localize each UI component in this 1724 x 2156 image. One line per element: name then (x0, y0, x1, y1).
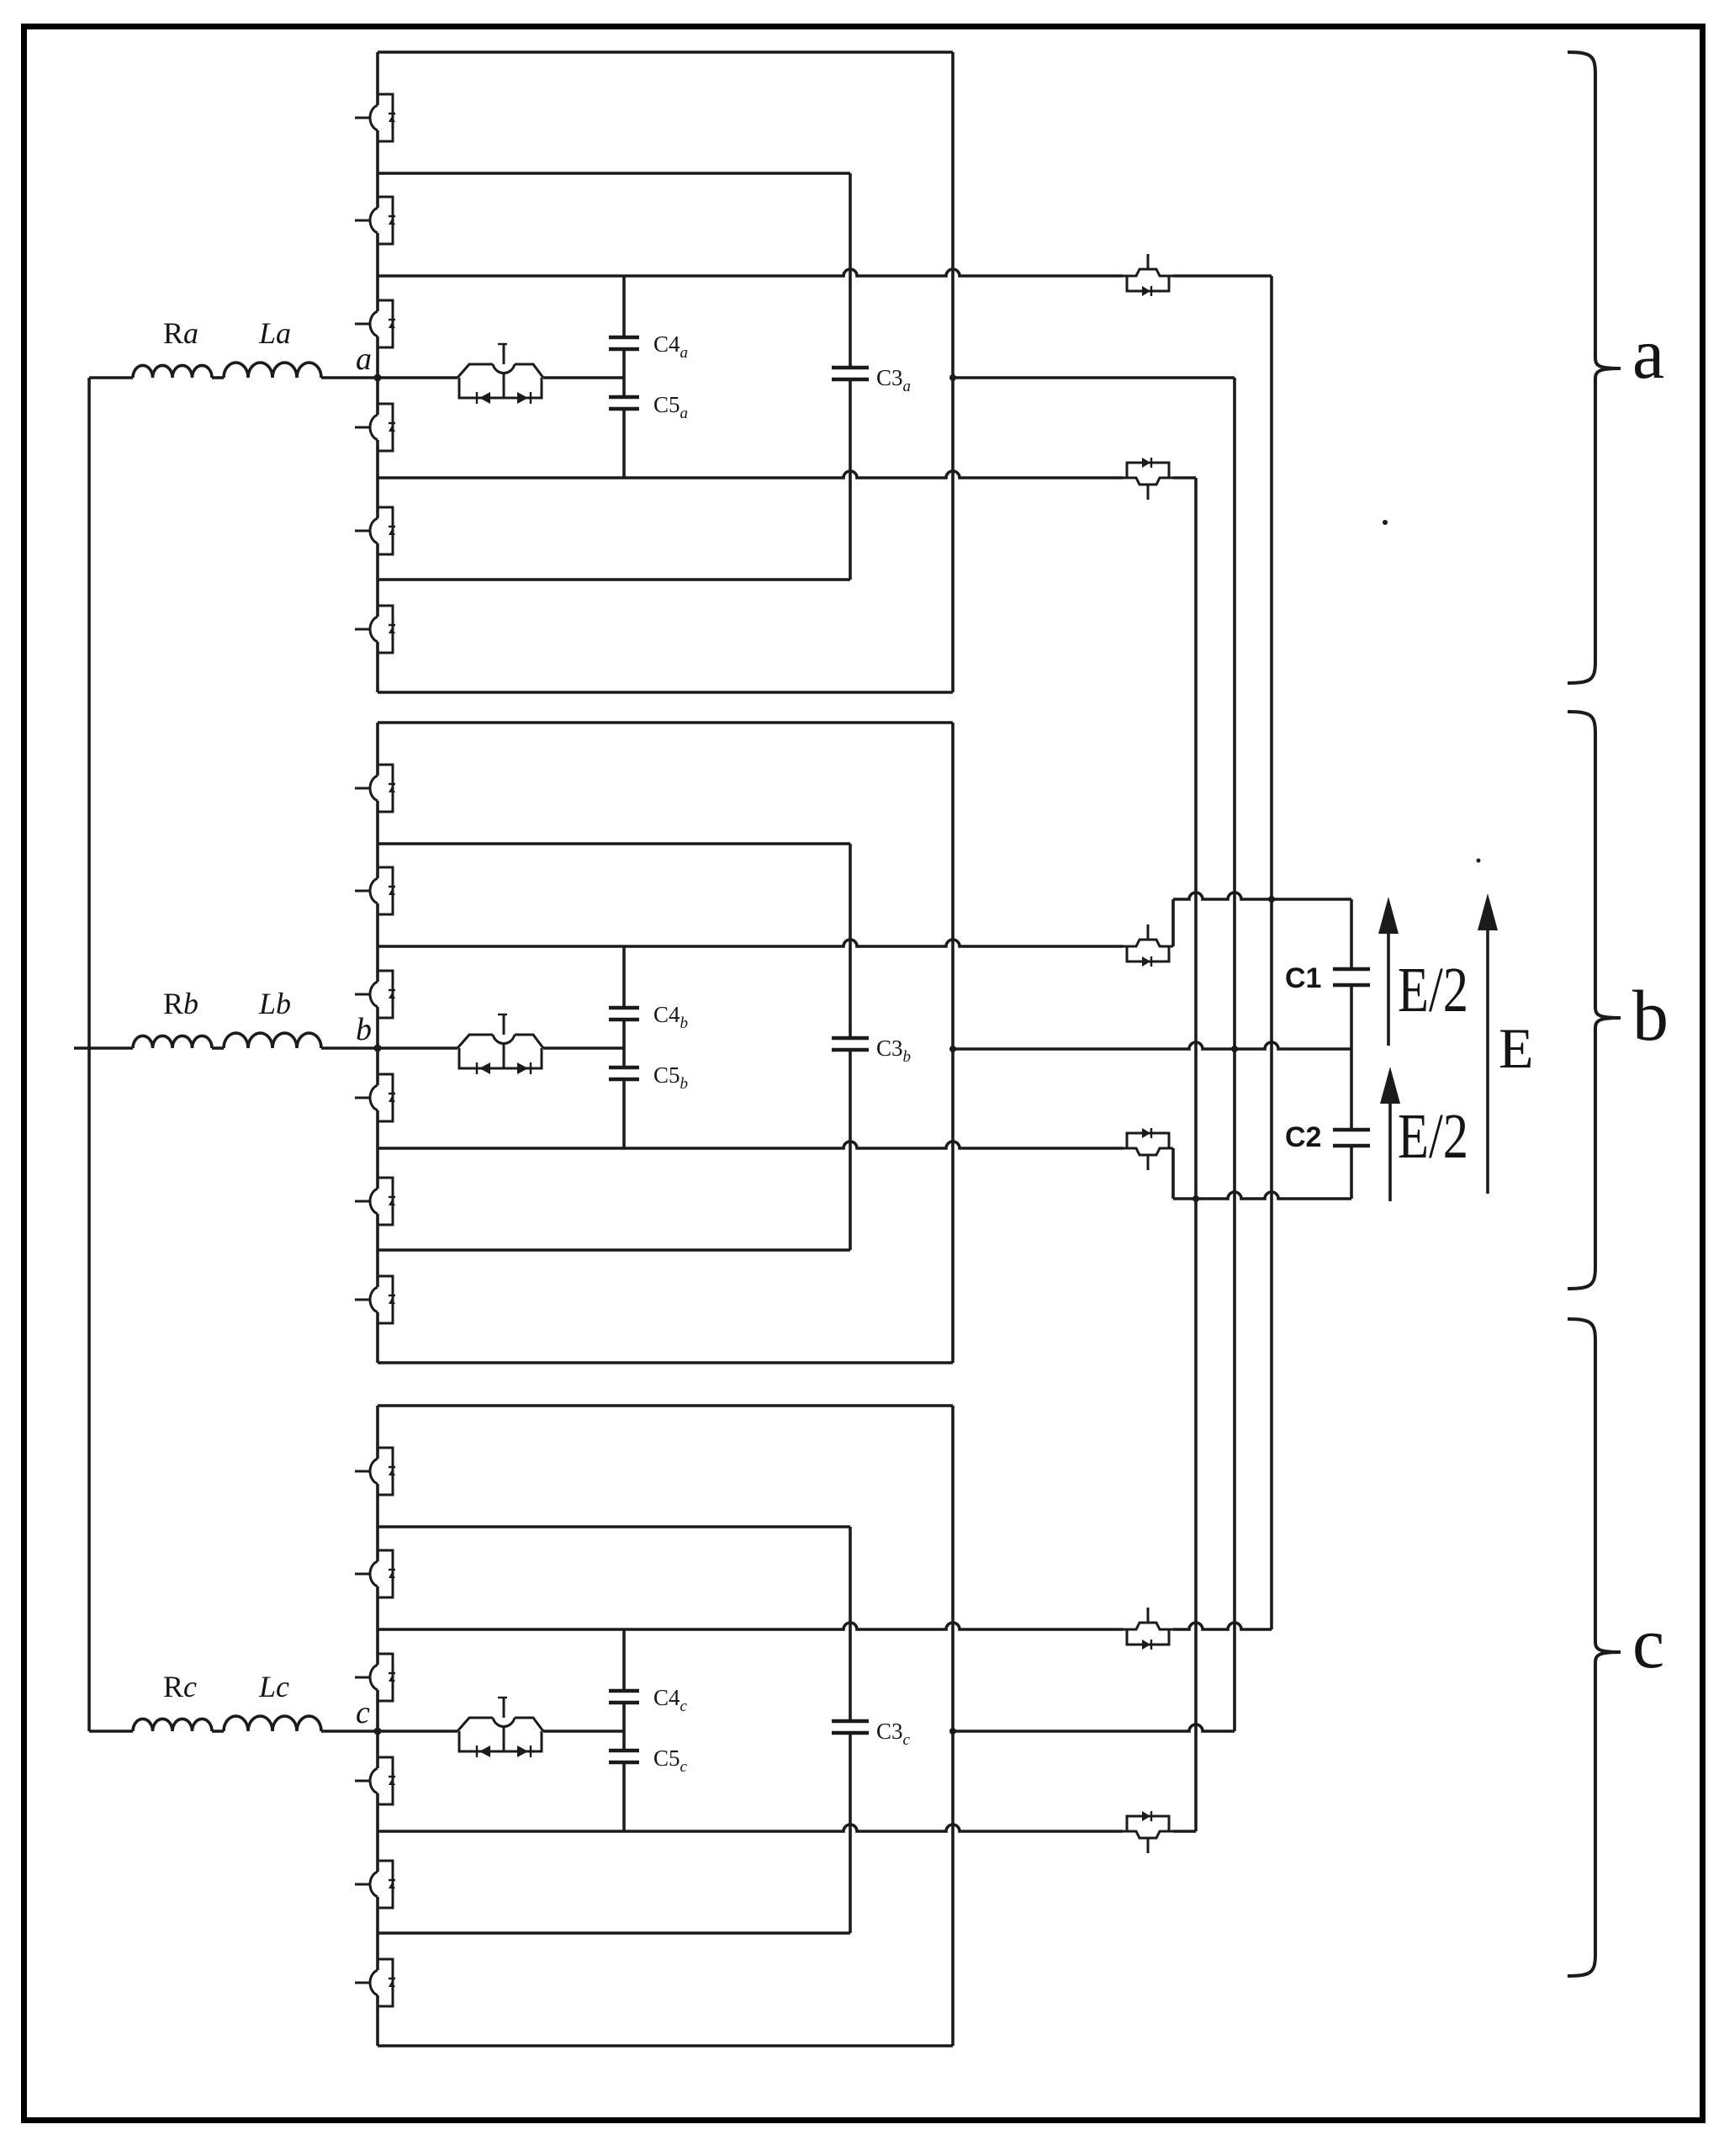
capacitor C4c (609, 1689, 639, 1693)
capacitor C5b (609, 1066, 639, 1070)
bidirectional switch phase c (378, 1730, 457, 1733)
svg-text:a: a (356, 342, 372, 377)
switch S4b (355, 1074, 395, 1121)
svg-text:C2: C2 (1285, 1121, 1321, 1153)
svg-text:Lb: Lb (258, 987, 291, 1020)
phase c wire 3 (upper clamp) (378, 1623, 1123, 1629)
phase a C3 branch wire (849, 173, 852, 368)
long vertical V1 (lower clamp bus) (1194, 478, 1198, 1831)
phase b lower clamp wire dropper (1171, 1148, 1175, 1199)
phase c wire 6 (378, 1931, 850, 1935)
inductor Lc (224, 1716, 321, 1731)
svg-text:Rc: Rc (163, 1670, 197, 1703)
svg-text:c: c (1632, 1602, 1664, 1683)
phase b outer loop bottom wire (378, 1361, 953, 1364)
switch S1b (355, 765, 395, 812)
arrow E/2 lower (1388, 1092, 1392, 1201)
clamp switch D1b (1123, 924, 1173, 967)
phase c C3 branch wire (849, 1527, 852, 1721)
bidirectional switch phase a (378, 376, 457, 379)
switch S2a (355, 197, 395, 244)
switch S6a (355, 606, 395, 653)
switch S1a (355, 94, 395, 141)
clamp switch D2c (1123, 1811, 1173, 1853)
phase b outer loop top wire (378, 721, 953, 724)
phase a wire 5 (lower clamp) (378, 471, 1123, 478)
svg-text:a: a (1632, 313, 1664, 394)
svg-text:E/2: E/2 (1398, 1101, 1468, 1172)
phase a outer loop right wire (951, 52, 955, 692)
phase a wire 3 (upper clamp) (378, 269, 1123, 276)
phase b wire 6 (378, 1248, 850, 1252)
svg-text:C1: C1 (1285, 962, 1321, 994)
switch S5a (355, 507, 395, 554)
phase a wire 2 (378, 172, 850, 175)
phase a upper clamp wire to DC+ (1173, 274, 1272, 278)
phase a switch bus (376, 52, 379, 692)
phase c outer loop bottom wire (378, 2044, 953, 2047)
phase c input wire (89, 1730, 133, 1733)
switch S3a (355, 300, 395, 347)
phase a wire 6 (378, 578, 850, 581)
DC mid rail (953, 1042, 1351, 1049)
phase b input wire (74, 1046, 133, 1050)
switch S2c (355, 1550, 395, 1597)
speck 1 (1383, 520, 1388, 525)
phase a outer loop top wire (378, 50, 953, 54)
svg-text:La: La (258, 316, 291, 350)
phase c upper clamp wire (1173, 1623, 1272, 1629)
capacitor C1 (1350, 899, 1353, 969)
phase c wire 5 (lower clamp) (378, 1825, 1123, 1831)
node N (left neutral rail) (87, 378, 91, 1731)
arrow E (1486, 919, 1489, 1194)
flying capacitor column phase b (622, 946, 626, 1008)
bidirectional switch phase b (378, 1046, 457, 1050)
phase a input wire (89, 376, 133, 379)
node c (374, 1728, 382, 1735)
long vertical V3 (upper clamp bus) (1270, 276, 1273, 1629)
svg-text:Rb: Rb (163, 987, 198, 1020)
capacitor C2 (1350, 1049, 1353, 1130)
svg-text:Lc: Lc (258, 1670, 289, 1703)
capacitor C3a (832, 366, 869, 370)
phase b upper clamp wire riser (1171, 899, 1175, 946)
phase b outer loop right wire (951, 723, 955, 1363)
switch S6c (355, 1959, 395, 2006)
svg-text:Ra: Ra (163, 316, 198, 350)
phase a outer loop bottom wire (378, 691, 953, 694)
inductor La (224, 363, 321, 378)
node a (374, 374, 382, 382)
clamp switch D1a (1123, 254, 1173, 296)
switch S1c (355, 1448, 395, 1495)
long vertical V2 (mid bus) (1233, 378, 1236, 1731)
node b (374, 1045, 382, 1052)
clamp switch D1c (1123, 1608, 1173, 1650)
capacitor C3c (832, 1719, 869, 1724)
switch S6b (355, 1276, 395, 1323)
phase a lower clamp wire (1173, 476, 1196, 479)
switch S3c (355, 1654, 395, 1701)
DC bottom rail (1173, 1192, 1351, 1199)
switch S4c (355, 1757, 395, 1804)
DC top rail (1173, 893, 1351, 899)
phase b wire 3 (upper clamp) (378, 940, 1123, 946)
resistor Rb (133, 1036, 212, 1048)
capacitor C4b (609, 1006, 639, 1010)
phase c mid output wire (953, 1724, 1235, 1731)
switch S4a (355, 404, 395, 451)
phase b C3 branch wire (849, 844, 852, 1038)
clamp switch D2b (1123, 1128, 1173, 1170)
phase c outer loop right wire (951, 1406, 955, 2046)
phase c switch bus (376, 1406, 379, 2046)
capacitor C5a (609, 395, 639, 400)
flying capacitor column phase a (622, 276, 626, 337)
switch S5b (355, 1178, 395, 1225)
resistor Ra (133, 365, 212, 378)
phase c wire 2 (378, 1525, 850, 1528)
brace c (1568, 1319, 1621, 1976)
svg-text:E: E (1499, 1016, 1534, 1080)
capacitor C4a (609, 336, 639, 340)
arrow E/2 upper (1387, 922, 1390, 1046)
speck 2 (1477, 859, 1481, 863)
brace b (1568, 712, 1621, 1289)
switch S5c (355, 1861, 395, 1908)
svg-text:c: c (356, 1695, 370, 1730)
phase b wire 2 (378, 842, 850, 845)
phase c lower clamp wire (1173, 1830, 1196, 1833)
svg-text:E/2: E/2 (1398, 955, 1468, 1025)
svg-text:b: b (1632, 975, 1668, 1056)
phase b wire 5 (lower clamp) (378, 1142, 1123, 1148)
clamp switch D2a (1123, 458, 1173, 500)
resistor Rc (133, 1719, 212, 1731)
flying capacitor column phase c (622, 1629, 626, 1691)
switch S2b (355, 867, 395, 914)
phase c outer loop top wire (378, 1404, 953, 1407)
inductor Lb (224, 1033, 321, 1048)
switch S3b (355, 971, 395, 1018)
phase b switch bus (376, 723, 379, 1363)
phase a mid output wire (953, 376, 1235, 379)
capacitor C5c (609, 1749, 639, 1753)
svg-text:b: b (356, 1012, 372, 1047)
capacitor C3b (832, 1036, 869, 1041)
brace a (1568, 52, 1621, 683)
